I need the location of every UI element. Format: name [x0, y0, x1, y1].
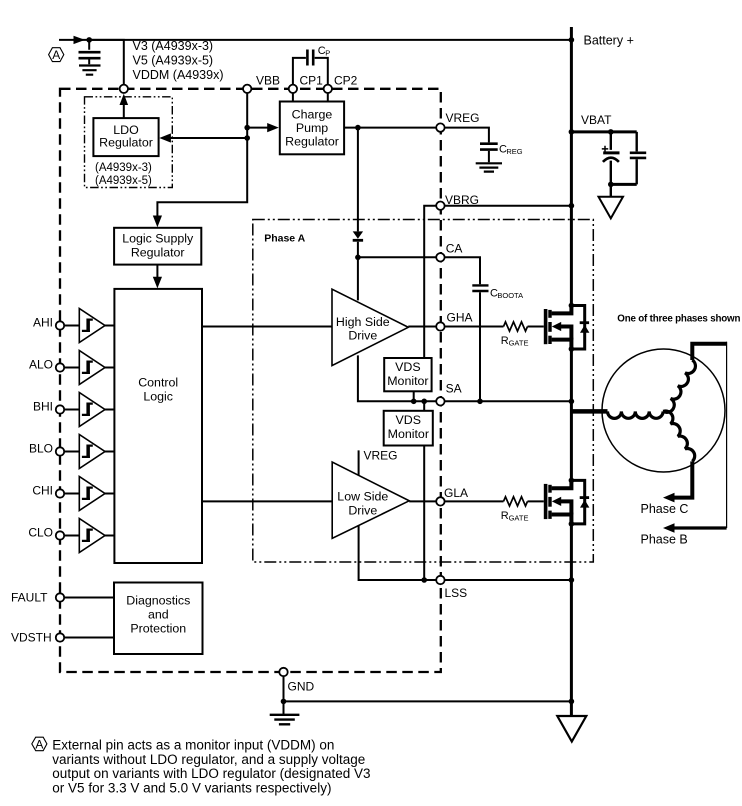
- svg-text:or V5 for 3.3 V and 5.0 V vari: or V5 for 3.3 V and 5.0 V variants respe…: [52, 780, 331, 795]
- svg-text:Control: Control: [138, 376, 178, 390]
- svg-text:VDSTH: VDSTH: [11, 631, 52, 645]
- svg-text:SA: SA: [446, 382, 462, 396]
- svg-text:Drive: Drive: [348, 329, 377, 343]
- svg-text:VDS: VDS: [396, 413, 421, 427]
- svg-text:CP1: CP1: [300, 74, 324, 88]
- svg-text:Monitor: Monitor: [387, 374, 428, 388]
- svg-text:AHI: AHI: [33, 316, 53, 330]
- svg-text:Logic Supply: Logic Supply: [122, 232, 194, 246]
- svg-text:R: R: [501, 510, 509, 522]
- svg-text:Monitor: Monitor: [388, 427, 429, 441]
- svg-text:VBB: VBB: [256, 74, 280, 88]
- svg-text:Low Side: Low Side: [337, 490, 388, 504]
- svg-text:Regulator: Regulator: [99, 136, 153, 150]
- svg-text:External pin acts as a monitor: External pin acts as a monitor input (VD…: [52, 738, 334, 753]
- svg-text:CA: CA: [446, 242, 463, 256]
- svg-text:Phase A: Phase A: [264, 233, 305, 245]
- svg-text:FAULT: FAULT: [11, 591, 48, 605]
- svg-text:High Side: High Side: [336, 315, 390, 329]
- svg-text:Battery +: Battery +: [584, 34, 634, 48]
- svg-text:ALO: ALO: [29, 358, 53, 372]
- svg-text:P: P: [325, 48, 330, 57]
- svg-text:GATE: GATE: [509, 338, 529, 347]
- svg-text:CP2: CP2: [334, 74, 358, 88]
- svg-text:VREG: VREG: [446, 111, 480, 125]
- svg-text:Charge: Charge: [292, 108, 333, 122]
- svg-text:Regulator: Regulator: [131, 246, 185, 260]
- svg-text:GND: GND: [288, 680, 315, 694]
- svg-text:VREG: VREG: [364, 449, 398, 463]
- svg-text:CHI: CHI: [32, 484, 53, 498]
- svg-text:GATE: GATE: [509, 513, 529, 522]
- svg-text:Protection: Protection: [130, 622, 186, 636]
- svg-text:GLA: GLA: [444, 486, 468, 500]
- svg-text:V5 (A4939x-5): V5 (A4939x-5): [133, 54, 214, 68]
- svg-text:Pump: Pump: [296, 121, 328, 135]
- svg-text:VDDM (A4939x): VDDM (A4939x): [133, 68, 224, 82]
- svg-text:(A4939x-3): (A4939x-3): [95, 162, 152, 174]
- svg-text:LSS: LSS: [445, 586, 468, 600]
- svg-text:BLO: BLO: [29, 442, 53, 456]
- svg-text:V3 (A4939x-3): V3 (A4939x-3): [133, 39, 214, 53]
- svg-text:Phase C: Phase C: [641, 502, 689, 516]
- svg-text:R: R: [501, 335, 509, 347]
- svg-text:A: A: [52, 48, 60, 62]
- svg-text:and: and: [148, 608, 169, 622]
- svg-text:Phase B: Phase B: [641, 533, 688, 547]
- svg-text:CLO: CLO: [28, 526, 53, 540]
- svg-text:One of three phases shown: One of three phases shown: [617, 314, 740, 325]
- svg-text:Drive: Drive: [348, 504, 377, 518]
- svg-text:(A4939x-5): (A4939x-5): [95, 175, 152, 187]
- svg-text:VBRG: VBRG: [445, 193, 479, 207]
- svg-text:BOOTA: BOOTA: [497, 291, 523, 300]
- svg-text:GHA: GHA: [447, 311, 473, 325]
- svg-text:Diagnostics: Diagnostics: [126, 594, 190, 608]
- svg-text:VBAT: VBAT: [581, 113, 612, 127]
- svg-text:Logic: Logic: [143, 390, 173, 404]
- svg-text:Regulator: Regulator: [285, 135, 339, 149]
- svg-text:VDS: VDS: [395, 360, 420, 374]
- svg-text:BHI: BHI: [33, 400, 53, 414]
- svg-text:A: A: [35, 737, 43, 751]
- svg-text:output on variants with LDO re: output on variants with LDO regulator (d…: [52, 766, 370, 781]
- svg-text:REG: REG: [506, 147, 522, 156]
- svg-text:variants without LDO regulator: variants without LDO regulator, and a su…: [52, 752, 365, 767]
